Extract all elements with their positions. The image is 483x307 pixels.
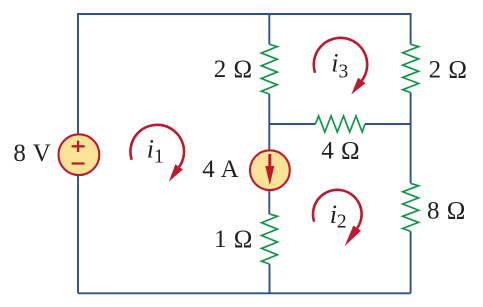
svg-text:1 Ω: 1 Ω [214, 226, 253, 253]
mesh arrow i2 [313, 190, 362, 246]
current source 4A [250, 150, 290, 190]
svg-text:8 Ω: 8 Ω [427, 197, 466, 224]
svg-text:8 V: 8 V [13, 140, 51, 167]
resistor 1ohm [262, 214, 278, 264]
wire middle branch [269, 123, 410, 125]
svg-text:i2: i2 [330, 200, 347, 233]
wire bottom [78, 292, 411, 294]
wire top [78, 13, 411, 15]
resistor 2ohm right [403, 44, 419, 92]
wire center bottom [269, 264, 271, 293]
wire right top [410, 13, 412, 44]
svg-text:4 A: 4 A [202, 156, 239, 183]
wire left [77, 13, 79, 293]
svg-text:i1: i1 [147, 135, 164, 168]
resistor 8ohm [403, 183, 419, 231]
wire right middle [410, 93, 412, 184]
mesh arrow i1 [130, 125, 184, 182]
resistor 2ohm middle [261, 44, 277, 94]
svg-text:2 Ω: 2 Ω [429, 57, 468, 84]
wire center top [268, 13, 270, 44]
wire center middle [268, 94, 270, 214]
svg-text:i3: i3 [331, 48, 348, 82]
mesh arrow i3 [314, 38, 367, 95]
voltage source 8V [59, 134, 100, 175]
svg-text:4 Ω: 4 Ω [321, 138, 360, 165]
wire right bottom [410, 231, 412, 293]
resistor 4ohm [315, 116, 365, 132]
svg-text:2 Ω: 2 Ω [214, 56, 253, 83]
